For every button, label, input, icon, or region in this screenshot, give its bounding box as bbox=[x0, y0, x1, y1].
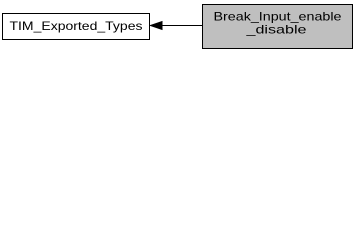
svg-text:_disable: _disable bbox=[245, 23, 307, 37]
background bbox=[0, 0, 356, 52]
node TIM_Exported_Types (box) bbox=[3, 14, 150, 40]
svg-text:Break_Input_enable: Break_Input_enable bbox=[214, 10, 342, 24]
edge arrowhead bbox=[151, 22, 163, 30]
edge wire: Break_Input_enable_disable -> TIM_Exported_Types bbox=[162, 25, 203, 27]
node Break_Input_enable_disable (box, current node, grey) bbox=[203, 5, 353, 49]
svg-text:TIM_Exported_Types: TIM_Exported_Types bbox=[10, 19, 143, 33]
